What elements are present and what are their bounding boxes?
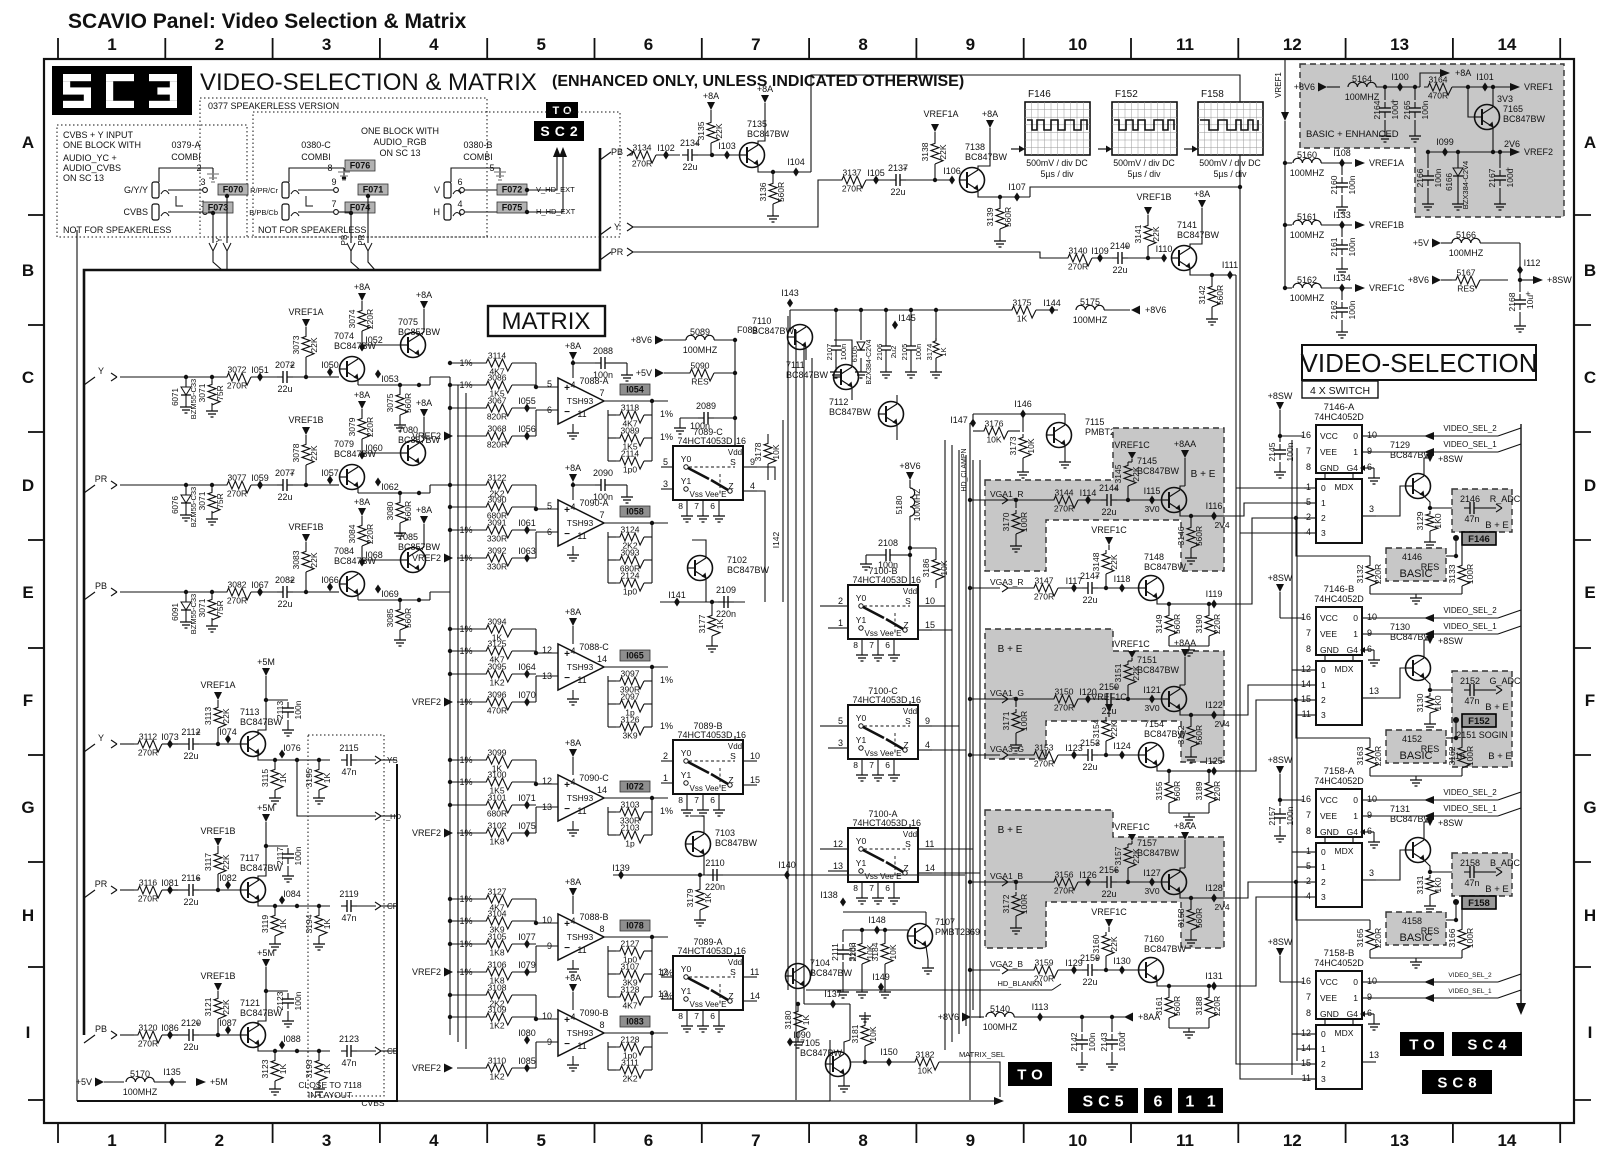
svg-text:BC847BW: BC847BW <box>1144 562 1187 572</box>
svg-text:6105: 6105 <box>850 346 859 363</box>
node I051 <box>251 365 269 382</box>
resistor 3123 1K <box>260 1049 288 1095</box>
node I148 <box>843 912 926 935</box>
output arrow CB <box>375 1047 398 1056</box>
svg-text:7154: 7154 <box>1144 719 1164 729</box>
svg-text:5140: 5140 <box>990 1004 1010 1014</box>
svg-text:3097: 3097 <box>621 669 640 679</box>
svg-text:2112: 2112 <box>181 727 200 737</box>
node I103 <box>718 141 736 160</box>
svg-text:D: D <box>1584 476 1596 495</box>
svg-text:SCAVIO Panel: Video Selection: SCAVIO Panel: Video Selection & Matrix <box>68 10 467 33</box>
svg-text:I086: I086 <box>161 1023 179 1033</box>
svg-text:5: 5 <box>1306 497 1311 507</box>
svg-text:G4: G4 <box>1347 463 1359 473</box>
svg-text:+5V: +5V <box>636 368 652 378</box>
svg-text:TO: TO <box>1409 1036 1440 1053</box>
svg-text:13: 13 <box>658 989 668 999</box>
svg-text:2106: 2106 <box>875 344 884 361</box>
node I126 <box>1079 870 1097 887</box>
svg-text:3106: 3106 <box>488 960 507 970</box>
svg-text:10K: 10K <box>1026 438 1036 453</box>
capacitor 2150 22u <box>1099 682 1161 716</box>
svg-text:11: 11 <box>577 409 586 419</box>
svg-text:4: 4 <box>457 199 462 209</box>
supply +8A <box>354 497 370 522</box>
svg-text:3094: 3094 <box>488 617 507 627</box>
svg-text:270R: 270R <box>138 1039 158 1049</box>
svg-text:0: 0 <box>1353 977 1358 987</box>
resistor 3119 1K <box>260 904 288 950</box>
svg-text:G4: G4 <box>1347 1009 1359 1019</box>
resistor 3195 1K <box>304 758 332 804</box>
svg-text:3: 3 <box>1369 868 1374 878</box>
svg-text:VCC: VCC <box>1320 431 1338 441</box>
transistor 7130 BC847BW <box>1376 622 1433 698</box>
supply +8V6 input <box>1294 82 1340 92</box>
svg-text:MDX: MDX <box>1335 846 1354 856</box>
svg-text:3184: 3184 <box>870 942 880 961</box>
node I130 <box>1113 956 1131 975</box>
svg-text:−: − <box>564 407 570 418</box>
svg-text:3079: 3079 <box>347 417 357 436</box>
svg-text:AUDIO_YC +: AUDIO_YC + <box>63 153 117 163</box>
svg-text:7: 7 <box>694 1011 699 1021</box>
svg-text:10: 10 <box>1367 612 1377 622</box>
capacitor 2089 100n <box>674 401 737 434</box>
svg-text:8: 8 <box>853 760 858 770</box>
svg-text:BASIC: BASIC <box>1399 750 1432 762</box>
svg-text:I131: I131 <box>1205 971 1223 981</box>
svg-text:VGA2_B: VGA2_B <box>990 959 1023 969</box>
svg-text:VREF1A: VREF1A <box>288 307 323 317</box>
wire I119 to MDX pin2 <box>1240 518 1304 604</box>
bus exit PB (top) <box>600 147 633 160</box>
bus exit PB (left) <box>84 581 117 600</box>
svg-text:3096: 3096 <box>488 690 507 700</box>
svg-text:2160: 2160 <box>1329 175 1339 194</box>
svg-text:7131: 7131 <box>1390 804 1410 814</box>
resistor 3084 220R <box>347 522 375 566</box>
capacitor 2142 100n <box>1069 1015 1097 1070</box>
supply +8A (op-amp 7088-B) <box>565 877 581 909</box>
wire I122 to MDX-B pin14 <box>1240 685 1304 715</box>
svg-text:100R: 100R <box>1019 512 1029 532</box>
svg-text:GND: GND <box>1320 1009 1339 1019</box>
svg-text:Y0: Y0 <box>856 836 867 846</box>
feedback network 7088-B <box>604 935 673 1011</box>
svg-text:2088: 2088 <box>593 346 613 356</box>
supply +8AA (7151) <box>1174 638 1196 689</box>
svg-text:100u: 100u <box>1505 168 1515 187</box>
svg-text:5µs / div: 5µs / div <box>1128 169 1162 179</box>
svg-text:3: 3 <box>322 1131 331 1150</box>
svg-text:I116: I116 <box>1206 501 1223 511</box>
wire I111 to MDX pin1 <box>1236 275 1304 1064</box>
wire HD_BLANKN <box>806 979 1061 990</box>
svg-text:1: 1 <box>1353 993 1358 1003</box>
vref VREF1C arrow <box>1091 692 1127 717</box>
svg-text:3071: 3071 <box>197 383 207 402</box>
svg-text:I115: I115 <box>1144 486 1161 496</box>
op-amp 7088-C <box>542 639 609 705</box>
diode 6071 BZM55-C33 <box>171 375 198 419</box>
svg-text:9: 9 <box>1367 628 1372 638</box>
wire emitter to output <box>358 485 450 495</box>
svg-text:1K2: 1K2 <box>489 1072 504 1082</box>
svg-text:8: 8 <box>858 35 867 54</box>
svg-text:I141: I141 <box>668 590 686 600</box>
label F076 <box>345 160 375 171</box>
svg-text:3190: 3190 <box>1194 614 1204 633</box>
supply +8SW (7146-A) <box>1268 391 1304 436</box>
wire VIDEO_SEL_2 (7158-B) <box>1372 972 1521 986</box>
resistor 3165 220R <box>1355 920 1383 958</box>
svg-text:8: 8 <box>599 924 604 934</box>
svg-text:5164: 5164 <box>1352 74 1372 84</box>
IC 7100-B 74HCT4053D <box>836 566 935 661</box>
svg-text:8: 8 <box>678 1011 683 1021</box>
node I129 <box>1065 958 1083 975</box>
svg-text:BC847BW: BC847BW <box>800 1048 843 1058</box>
svg-text:100n: 100n <box>1087 1032 1097 1051</box>
resistor 3178 10K <box>753 434 781 480</box>
svg-text:3175: 3175 <box>1013 298 1032 308</box>
transistor 7075 BC857BW <box>362 290 441 358</box>
svg-text:7138: 7138 <box>965 142 985 152</box>
svg-text:22u: 22u <box>277 384 292 394</box>
svg-text:3163: 3163 <box>1355 746 1365 765</box>
wire 7138 emitter <box>978 182 1030 202</box>
wire I131 to 7158-A pin4 <box>1240 897 1304 986</box>
svg-text:VEE: VEE <box>1320 629 1337 639</box>
resistor 3158 560R <box>1176 898 1230 946</box>
supply +8A (op-amp 7090-A) <box>565 463 581 495</box>
svg-text:3108: 3108 <box>488 983 507 993</box>
VIDEO-SELECTION label box <box>1301 345 1538 380</box>
node I076 <box>279 743 301 759</box>
svg-text:SC2: SC2 <box>540 123 582 139</box>
svg-text:I104: I104 <box>787 157 805 167</box>
svg-text:+8A: +8A <box>565 341 581 351</box>
inductor 5162 100MHZ <box>1283 275 1352 303</box>
resistor 3161 560R <box>1154 986 1182 1028</box>
svg-text:BC847BW: BC847BW <box>965 152 1008 162</box>
resistor 3164 470R <box>1424 75 1510 101</box>
node I081 <box>161 878 179 895</box>
node I120 <box>1079 687 1097 704</box>
svg-text:3077: 3077 <box>228 473 247 483</box>
resistor 75R <box>197 483 225 525</box>
resistor 3136 560R <box>758 172 786 222</box>
svg-text:S: S <box>730 457 736 467</box>
diode 6076 BZM55-C33 <box>171 483 198 527</box>
wire to MDX-B pin11 <box>1297 714 1304 716</box>
transistor 7105 BC847BW <box>800 1038 851 1092</box>
svg-text:I119: I119 <box>1206 589 1223 599</box>
output label I083 <box>620 1016 650 1027</box>
resistor 3159 270R <box>1030 958 1082 984</box>
svg-text:680R: 680R <box>487 809 507 819</box>
svg-text:BC847BW: BC847BW <box>786 370 829 380</box>
svg-text:B_ADC: B_ADC <box>1490 858 1521 868</box>
svg-text:I122: I122 <box>1205 700 1223 710</box>
svg-text:560R: 560R <box>1194 526 1204 546</box>
svg-text:12: 12 <box>1283 1131 1302 1150</box>
svg-text:COMBI: COMBI <box>171 152 201 162</box>
svg-text:+8SW: +8SW <box>1268 391 1293 401</box>
capacitor 2159 22u <box>1080 953 1138 987</box>
svg-text:3149: 3149 <box>1154 614 1164 633</box>
svg-text:3131: 3131 <box>1415 875 1425 894</box>
svg-text:1%: 1% <box>660 806 673 816</box>
node I114 <box>1080 488 1097 505</box>
svg-text:4: 4 <box>750 481 755 491</box>
svg-text:7157: 7157 <box>1137 838 1157 848</box>
svg-text:3V0: 3V0 <box>1144 886 1159 896</box>
svg-text:BC857BW: BC857BW <box>398 327 441 337</box>
svg-text:22u: 22u <box>890 187 905 197</box>
wire to 7158-B pins <box>1292 1034 1304 1049</box>
svg-text:100MHZ: 100MHZ <box>683 345 718 355</box>
svg-text:10: 10 <box>1068 35 1087 54</box>
svg-text:I114: I114 <box>1080 488 1097 498</box>
svg-text:3132: 3132 <box>1355 564 1365 583</box>
resistor 3154 22K <box>1091 717 1119 755</box>
wire 7151 emitter <box>1180 700 1240 720</box>
svg-text:3080: 3080 <box>385 501 395 520</box>
svg-text:7: 7 <box>1306 628 1311 638</box>
svg-text:1: 1 <box>1353 447 1358 457</box>
svg-text:I055: I055 <box>518 396 536 406</box>
VGA row VGA3_R wire <box>968 577 1030 592</box>
svg-text:3V0: 3V0 <box>1144 703 1159 713</box>
wire I107 right <box>1030 185 1242 197</box>
inductor 5161 100MHZ <box>1283 212 1352 240</box>
svg-text:100u: 100u <box>1117 1032 1127 1051</box>
svg-text:7: 7 <box>1306 810 1311 820</box>
svg-text:10: 10 <box>1068 1131 1087 1150</box>
connector 0379-A COMBI <box>123 140 219 220</box>
resistor 3181 10K <box>850 1012 878 1064</box>
IC 7100-C 74HCT4053D <box>836 686 932 781</box>
transistor 7141 BC847BW <box>1172 220 1220 271</box>
transistor 7110 BC847BW <box>752 316 813 360</box>
label F152 <box>1453 714 1496 727</box>
bus exit Y (left) <box>84 733 117 752</box>
svg-text:F072: F072 <box>502 185 523 195</box>
svg-text:E: E <box>22 583 33 602</box>
svg-text:+8A: +8A <box>703 91 719 101</box>
svg-text:3159: 3159 <box>1035 958 1054 968</box>
svg-text:22K: 22K <box>938 144 948 159</box>
svg-text:4: 4 <box>925 740 930 750</box>
capacitor 2117 100n <box>266 846 303 882</box>
svg-text:3072: 3072 <box>228 365 247 375</box>
svg-text:11: 11 <box>577 675 586 685</box>
output label I054 <box>620 384 650 395</box>
svg-text:7: 7 <box>599 388 604 398</box>
wire S/Z links 7089-C <box>757 467 775 602</box>
svg-text:Vss Vee E: Vss Vee E <box>690 490 727 499</box>
svg-text:6: 6 <box>1367 462 1372 472</box>
capacitor 2088 100n <box>571 346 633 381</box>
svg-text:1K: 1K <box>939 347 948 356</box>
resistor 3137 270R <box>838 168 890 194</box>
svg-text:5: 5 <box>1306 861 1311 871</box>
transistor 7113 BC847BW <box>240 707 283 757</box>
svg-text:B + E: B + E <box>998 825 1023 836</box>
wire VIDEO_SEL_1 (7146-A) <box>1372 440 1521 456</box>
svg-text:I063: I063 <box>518 546 536 556</box>
op-amp 7088-B <box>542 909 609 975</box>
svg-text:7115: 7115 <box>1085 417 1104 427</box>
svg-text:2097: 2097 <box>621 692 640 702</box>
svg-text:PB: PB <box>95 581 107 591</box>
svg-text:2116: 2116 <box>181 873 200 883</box>
svg-text:270R: 270R <box>1068 262 1088 272</box>
svg-text:2119: 2119 <box>339 889 358 899</box>
svg-text:3084: 3084 <box>347 524 357 543</box>
svg-text:VREF1C: VREF1C <box>1369 283 1405 293</box>
svg-text:100n: 100n <box>1285 442 1295 461</box>
svg-text:I150: I150 <box>880 1047 898 1057</box>
svg-text:F158: F158 <box>1201 89 1224 100</box>
svg-text:I060: I060 <box>365 443 383 453</box>
transistor 7115 PMBT2369 <box>1047 414 1131 468</box>
svg-text:I052: I052 <box>365 335 383 345</box>
svg-text:100R: 100R <box>1465 746 1475 766</box>
svg-text:+5M: +5M <box>210 1077 228 1087</box>
svg-text:22K: 22K <box>309 445 319 460</box>
svg-text:3112: 3112 <box>139 732 158 742</box>
svg-text:0380-C: 0380-C <box>301 140 331 150</box>
svg-text:16: 16 <box>911 695 921 705</box>
svg-text:+8A: +8A <box>1194 189 1210 199</box>
svg-text:Y: Y <box>614 222 620 232</box>
node I088 <box>279 1034 301 1050</box>
node I146 <box>973 399 1065 419</box>
waveform display F146 <box>1011 89 1090 179</box>
svg-text:VCC: VCC <box>1320 795 1338 805</box>
svg-text:VIDEO_SEL_1: VIDEO_SEL_1 <box>1443 440 1497 449</box>
transistor 7107 PMBT2369 <box>908 912 981 974</box>
svg-text:I147: I147 <box>950 415 968 425</box>
svg-text:3086: 3086 <box>488 373 507 383</box>
input network 7090-B <box>448 983 536 1031</box>
svg-text:3173: 3173 <box>1008 436 1018 455</box>
svg-text:3134: 3134 <box>633 143 652 153</box>
svg-text:B: B <box>22 261 34 280</box>
vref VREF1B arrow <box>1136 192 1171 222</box>
svg-text:C: C <box>1584 368 1596 387</box>
svg-text:100R: 100R <box>1465 928 1475 948</box>
svg-text:+8A: +8A <box>757 84 773 94</box>
node I127 <box>1143 868 1161 887</box>
svg-text:9: 9 <box>966 35 975 54</box>
svg-text:16: 16 <box>911 818 921 828</box>
svg-text:3071: 3071 <box>197 598 207 617</box>
svg-text:22K: 22K <box>309 337 319 352</box>
svg-text:Vss Vee E: Vss Vee E <box>690 1000 727 1009</box>
svg-text:8: 8 <box>853 883 858 893</box>
svg-text:1%: 1% <box>660 675 673 685</box>
svg-text:8: 8 <box>1306 826 1311 836</box>
svg-text:2167: 2167 <box>1487 168 1497 187</box>
svg-text:6: 6 <box>885 883 890 893</box>
svg-text:3119: 3119 <box>260 915 270 934</box>
resistor 3129 1K0 <box>1415 511 1443 548</box>
transistor 7160 BC847BW <box>1139 934 1187 983</box>
svg-text:74HCT4053D: 74HCT4053D <box>852 695 908 705</box>
svg-text:+8A: +8A <box>565 973 581 983</box>
capacitor 2145 100n <box>1267 434 1295 478</box>
svg-text:14: 14 <box>1497 1131 1516 1150</box>
node I137 <box>804 989 850 1040</box>
node I085 <box>518 1056 536 1073</box>
node I071 <box>518 793 536 810</box>
svg-text:Y0: Y0 <box>856 713 867 723</box>
svg-text:PR: PR <box>95 879 108 889</box>
svg-text:1K0: 1K0 <box>1433 877 1443 892</box>
resistor 3073 22K <box>291 333 319 379</box>
svg-text:7088-C: 7088-C <box>579 642 609 652</box>
VGA row VGA2_B wire <box>968 959 1030 974</box>
input network 7090-C <box>448 748 536 819</box>
svg-text:F: F <box>1585 691 1595 710</box>
svg-text:2V4: 2V4 <box>1214 902 1229 912</box>
svg-text:BC847BW: BC847BW <box>715 838 758 848</box>
svg-text:Y1: Y1 <box>681 986 692 996</box>
svg-text:2117: 2117 <box>275 847 285 866</box>
svg-text:3104: 3104 <box>488 909 507 919</box>
svg-text:4: 4 <box>1306 891 1311 901</box>
label F070 <box>218 184 248 195</box>
svg-text:500mV / div DC: 500mV / div DC <box>1199 158 1261 168</box>
svg-text:I143: I143 <box>781 288 799 298</box>
svg-text:VREF1B: VREF1B <box>1369 220 1404 230</box>
svg-text:2108: 2108 <box>878 538 898 548</box>
svg-text:14: 14 <box>925 863 935 873</box>
wire 7141 emitter <box>1190 260 1238 280</box>
svg-text:3193: 3193 <box>304 1059 314 1078</box>
svg-text:100n: 100n <box>1433 168 1443 187</box>
svg-text:+8SW: +8SW <box>1268 755 1293 765</box>
svg-text:RES: RES <box>691 377 709 387</box>
svg-text:8: 8 <box>678 795 683 805</box>
svg-text:I106: I106 <box>943 166 961 176</box>
svg-text:6091: 6091 <box>171 603 180 621</box>
wire connector PB PR outputs <box>339 194 375 270</box>
svg-text:1%: 1% <box>660 409 673 419</box>
inductor 5180 100MHZ <box>894 488 922 581</box>
svg-text:I100: I100 <box>1391 72 1409 82</box>
svg-text:330R: 330R <box>487 534 507 544</box>
svg-text:+8AA: +8AA <box>1174 638 1196 648</box>
node I059 <box>251 473 269 490</box>
vref VREF1A arrow <box>923 109 958 140</box>
svg-text:560R: 560R <box>776 182 786 202</box>
svg-text:7: 7 <box>869 760 874 770</box>
svg-text:2156: 2156 <box>1099 865 1119 875</box>
svg-text:3174: 3174 <box>925 344 934 361</box>
svg-text:100R: 100R <box>1019 711 1029 731</box>
svg-text:2164: 2164 <box>1372 100 1382 119</box>
svg-text:7145: 7145 <box>1137 456 1157 466</box>
wire +input <box>534 629 558 655</box>
svg-text:100n: 100n <box>293 700 303 719</box>
svg-text:7129: 7129 <box>1390 440 1410 450</box>
